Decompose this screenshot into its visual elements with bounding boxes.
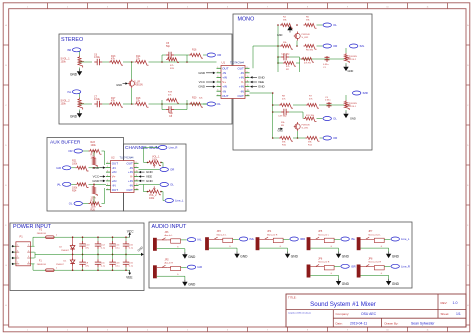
svg-text:0.33u: 0.33u	[323, 64, 329, 66]
svg-text:GND: GND	[70, 72, 78, 76]
svg-text:8: 8	[136, 162, 137, 164]
svg-text:47k R1: 47k R1	[304, 63, 312, 65]
svg-text:1N4007: 1N4007	[56, 264, 64, 266]
svg-text:P0915N: P0915N	[302, 34, 310, 36]
svg-text:GND: GND	[342, 282, 350, 286]
svg-text:GND: GND	[291, 255, 299, 259]
svg-text:100k: 100k	[91, 144, 97, 147]
svg-text:1: 1	[107, 162, 108, 164]
svg-text:V-: V-	[130, 175, 133, 179]
svg-text:VEE: VEE	[258, 80, 264, 84]
svg-text:+IN: +IN	[239, 85, 244, 89]
svg-text:Drawn By:: Drawn By:	[385, 321, 399, 325]
svg-text:C4T 50p: C4T 50p	[278, 116, 287, 118]
svg-text:6: 6	[28, 256, 29, 258]
svg-text:NVOL2: NVOL2	[349, 59, 357, 61]
svg-text:OL: OL	[333, 117, 337, 121]
svg-text:2: 2	[28, 244, 29, 246]
svg-text:REV:: REV:	[441, 301, 448, 305]
svg-text:OL: OL	[69, 202, 73, 206]
svg-text:TL074CN#4: TL074CN#4	[230, 60, 245, 64]
svg-text:100k: 100k	[61, 61, 67, 64]
svg-text:2: 2	[217, 71, 218, 73]
svg-text:2EEF010: 2EEF010	[37, 264, 47, 266]
svg-text:-IN: -IN	[222, 89, 226, 93]
svg-text:OUT: OUT	[126, 188, 133, 192]
svg-text:GND: GND	[146, 179, 154, 183]
svg-text:+IN: +IN	[128, 179, 133, 183]
svg-text:-IN: -IN	[240, 89, 244, 93]
svg-text:1N4007: 1N4007	[61, 250, 69, 252]
svg-text:3: 3	[107, 171, 108, 173]
svg-text:CHANNEL SUM: CHANNEL SUM	[125, 145, 160, 151]
svg-text:-IN: -IN	[222, 71, 226, 75]
svg-text:GND: GND	[188, 283, 196, 287]
svg-text:IMR: IMR	[363, 91, 368, 95]
svg-text:GND: GND	[278, 130, 284, 133]
svg-text:OL: OL	[170, 183, 174, 187]
svg-text:+IN: +IN	[239, 76, 244, 80]
svg-text:MONO: MONO	[238, 17, 255, 23]
svg-text:Mono-In L: Mono-In L	[217, 234, 228, 236]
svg-text:IAR: IAR	[197, 265, 202, 269]
svg-text:GND: GND	[92, 166, 100, 170]
svg-text:12: 12	[136, 179, 138, 181]
svg-text:9: 9	[247, 71, 248, 73]
svg-text:100k: 100k	[149, 197, 155, 200]
svg-text:0.33u: 0.33u	[94, 98, 101, 101]
svg-text:3: 3	[217, 76, 218, 78]
svg-text:Sean Sylwester: Sean Sylwester	[411, 321, 435, 325]
svg-text:13: 13	[247, 90, 249, 92]
svg-text:4: 4	[217, 81, 218, 83]
svg-text:P0915N: P0915N	[349, 56, 357, 58]
svg-text:ISR: ISR	[351, 264, 356, 268]
svg-text:TL074CN#4: TL074CN#4	[120, 155, 135, 159]
svg-text:GND: GND	[198, 71, 206, 75]
svg-text:AUDIO INPUT: AUDIO INPUT	[152, 224, 187, 230]
svg-text:GND: GND	[146, 170, 154, 174]
svg-text:Mono-In R: Mono-In R	[267, 234, 278, 236]
svg-text:ISL: ISL	[67, 90, 71, 94]
svg-text:JP4: JP4	[267, 230, 272, 233]
svg-text:+IN: +IN	[128, 170, 133, 174]
svg-text:0.30u: 0.30u	[94, 56, 101, 59]
svg-text:OR: OR	[217, 53, 221, 57]
svg-text:OUT: OUT	[237, 66, 244, 70]
svg-text:Stereo-In R: Stereo-In R	[318, 261, 330, 264]
svg-text:IAR: IAR	[56, 166, 61, 170]
svg-text:ISR: ISR	[67, 48, 71, 52]
svg-text:8: 8	[28, 262, 29, 264]
svg-text:GND: GND	[92, 179, 100, 183]
svg-text:R24: R24	[72, 190, 77, 193]
svg-text:GND: GND	[240, 255, 248, 259]
svg-text:STEREO: STEREO	[61, 37, 83, 43]
svg-text:GND: GND	[392, 255, 400, 259]
svg-text:5: 5	[107, 179, 108, 181]
svg-text:Line_R: Line_R	[169, 146, 178, 150]
svg-text:0.33u: 0.33u	[325, 100, 331, 102]
svg-text:TITLE:: TITLE:	[288, 295, 297, 299]
svg-text:OUT: OUT	[112, 161, 119, 165]
svg-text:R16: R16	[192, 49, 197, 52]
svg-text:3: 3	[17, 250, 18, 252]
svg-text:Line_R: Line_R	[401, 264, 410, 268]
svg-text:IML: IML	[360, 44, 365, 48]
svg-text:50p: 50p	[166, 45, 171, 48]
svg-text:VCC: VCC	[199, 80, 206, 84]
svg-text:IML: IML	[250, 237, 255, 241]
svg-text:OUT: OUT	[112, 188, 119, 192]
svg-text:Sound System #1 Mixer: Sound System #1 Mixer	[310, 301, 376, 308]
svg-text:IAL: IAL	[57, 182, 62, 186]
svg-text:Line_L: Line_L	[401, 237, 410, 241]
svg-text:7: 7	[217, 94, 218, 96]
svg-text:R5 39k: R5 39k	[306, 50, 314, 52]
svg-text:-IN: -IN	[240, 71, 244, 75]
svg-text:Sheet:: Sheet:	[441, 312, 450, 316]
svg-text:GND: GND	[277, 34, 283, 37]
svg-text:VEE: VEE	[126, 276, 132, 280]
svg-text:JP7: JP7	[368, 230, 373, 233]
svg-text:IMR: IMR	[300, 237, 305, 241]
svg-text:Aux-In R: Aux-In R	[165, 262, 174, 265]
svg-text:GND: GND	[116, 83, 122, 87]
svg-text:OUT: OUT	[222, 66, 229, 70]
svg-text:V-: V-	[241, 80, 244, 84]
svg-text:JP8: JP8	[368, 258, 373, 261]
svg-text:GND: GND	[198, 85, 206, 89]
svg-text:-IN: -IN	[112, 166, 116, 170]
svg-text:Date:: Date:	[336, 321, 343, 325]
svg-text:P0915N: P0915N	[134, 84, 143, 87]
svg-text:JP3: JP3	[217, 230, 222, 233]
svg-text:Stereo-Out R: Stereo-Out R	[368, 261, 381, 264]
svg-text:OR: OR	[333, 136, 337, 140]
svg-text:14: 14	[136, 188, 138, 190]
svg-text:V+: V+	[222, 80, 226, 84]
svg-text:GND: GND	[188, 255, 196, 259]
svg-text:OL: OL	[217, 102, 221, 106]
svg-text:2: 2	[56, 235, 57, 237]
svg-text:GND: GND	[350, 117, 356, 121]
svg-text:P0915N: P0915N	[302, 125, 310, 127]
svg-text:OR: OR	[333, 44, 337, 48]
svg-text:1/1: 1/1	[456, 312, 461, 316]
svg-text:Line_L: Line_L	[175, 199, 184, 203]
svg-text:OUT: OUT	[222, 94, 229, 98]
svg-text:VCC: VCC	[93, 175, 100, 179]
svg-text:Aux-In L: Aux-In L	[165, 234, 174, 237]
svg-text:V+: V+	[112, 175, 116, 179]
svg-text:2019-04-11: 2019-04-11	[350, 321, 367, 325]
svg-text:R26: R26	[91, 209, 96, 212]
svg-text:+IN: +IN	[222, 85, 227, 89]
svg-text:IAL: IAL	[197, 238, 202, 242]
svg-text:-IN: -IN	[112, 183, 116, 187]
svg-text:S_LR2: S_LR2	[302, 37, 309, 39]
svg-text:8: 8	[247, 67, 248, 69]
svg-text:Stereo-In L: Stereo-In L	[318, 233, 330, 236]
svg-text:OUT: OUT	[237, 94, 244, 98]
svg-text:U2: U2	[111, 155, 115, 159]
svg-text:14: 14	[247, 94, 249, 96]
svg-text:4: 4	[107, 175, 108, 177]
svg-text:GND: GND	[348, 69, 354, 73]
svg-text:OUT: OUT	[126, 161, 133, 165]
svg-text:9: 9	[136, 166, 137, 168]
svg-text:VEE: VEE	[146, 175, 152, 179]
svg-text:Stereo-Out L: Stereo-Out L	[368, 233, 381, 236]
svg-text:100k: 100k	[61, 103, 67, 106]
svg-text:JP1: JP1	[165, 231, 170, 234]
svg-text:+IN: +IN	[222, 76, 227, 80]
svg-text:7: 7	[17, 262, 18, 264]
svg-text:+IN: +IN	[112, 170, 117, 174]
svg-text:easyeda.com/file.sch-doc.prj: easyeda.com/file.sch-doc.prj	[288, 313, 311, 315]
svg-text:OR: OR	[170, 168, 174, 172]
svg-text:10: 10	[136, 171, 138, 173]
svg-text:-IN: -IN	[129, 183, 133, 187]
svg-text:P0915N: P0915N	[349, 103, 357, 105]
svg-text:1: 1	[217, 67, 218, 69]
svg-text:NVOL1: NVOL1	[349, 106, 357, 108]
svg-text:5: 5	[17, 256, 18, 258]
svg-text:6: 6	[217, 90, 218, 92]
svg-text:C4T 50p: C4T 50p	[281, 54, 290, 56]
svg-text:JP6: JP6	[318, 258, 323, 261]
svg-text:ISL: ISL	[351, 237, 356, 241]
svg-text:AUX BUFFER: AUX BUFFER	[50, 139, 81, 145]
svg-text:10: 10	[247, 76, 249, 78]
svg-text:11: 11	[136, 175, 138, 177]
svg-text:OL: OL	[333, 23, 337, 27]
svg-text:OSU AEC: OSU AEC	[361, 312, 377, 316]
svg-text:1.0: 1.0	[453, 301, 458, 305]
svg-text:P1: P1	[20, 235, 24, 239]
svg-text:S_LR1: S_LR1	[302, 128, 309, 130]
svg-text:1: 1	[17, 244, 18, 246]
svg-text:GND: GND	[258, 85, 266, 89]
svg-text:2EEF010: 2EEF010	[37, 233, 47, 235]
svg-text:4: 4	[28, 250, 29, 252]
svg-text:GND: GND	[342, 255, 350, 259]
svg-text:100k: 100k	[72, 163, 78, 166]
svg-text:12: 12	[247, 85, 249, 87]
svg-text:JP2: JP2	[165, 258, 170, 261]
svg-text:5: 5	[217, 85, 218, 87]
svg-text:-IN: -IN	[129, 166, 133, 170]
svg-text:GND: GND	[70, 114, 78, 118]
svg-text:GND: GND	[258, 76, 266, 80]
svg-text:11: 11	[247, 81, 249, 83]
svg-text:2: 2	[56, 268, 57, 270]
svg-text:POWER INPUT: POWER INPUT	[13, 224, 52, 230]
svg-text:Company:: Company:	[336, 312, 350, 316]
svg-text:VCC: VCC	[127, 229, 134, 233]
svg-text:GND: GND	[392, 282, 400, 286]
svg-text:6: 6	[107, 184, 108, 186]
svg-text:U1: U1	[222, 60, 226, 64]
svg-text:R20: R20	[192, 97, 197, 100]
svg-text:7: 7	[107, 188, 108, 190]
svg-text:JP5: JP5	[318, 230, 323, 233]
svg-text:+IN: +IN	[112, 179, 117, 183]
svg-text:13: 13	[136, 184, 138, 186]
svg-text:2: 2	[107, 166, 108, 168]
svg-text:OR: OR	[68, 149, 72, 153]
